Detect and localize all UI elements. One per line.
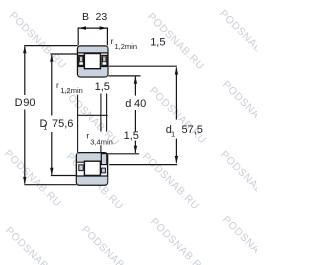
- lower left flange notch: [79, 165, 83, 171]
- watermark row4: [3, 214, 282, 265]
- watermark row1: [7, 8, 279, 73]
- svg-text:D: D: [15, 97, 23, 109]
- B arrow left: [78, 26, 86, 30]
- D1 arrow up: [50, 54, 53, 62]
- D arrow up: [23, 46, 26, 54]
- D1 top extension line: [50, 53, 77, 55]
- d1 arrow up: [175, 67, 178, 75]
- svg-text:1: 1: [43, 123, 47, 132]
- lower outer ring band: [77, 176, 108, 185]
- lower inner ring band: [77, 153, 101, 162]
- lower roller: [84, 161, 100, 175]
- D arrow down: [23, 177, 26, 185]
- watermark row3: [2, 148, 280, 213]
- svg-text:r: r: [86, 131, 89, 141]
- upper bearing section outline: [78, 46, 108, 77]
- B dimension line: [78, 27, 107, 29]
- svg-text:1,5: 1,5: [150, 37, 165, 49]
- svg-text:1,5: 1,5: [124, 130, 139, 142]
- svg-text:3,4min: 3,4min: [90, 137, 113, 146]
- lower right small notch: [101, 168, 105, 173]
- svg-text:B: B: [82, 11, 89, 23]
- svg-text:r: r: [56, 80, 59, 90]
- d1 dimension line: [175, 68, 177, 163]
- d arrow down: [134, 146, 137, 154]
- svg-text:90: 90: [23, 97, 35, 109]
- leader line r1,2 left vertical: [77, 95, 79, 153]
- svg-text:r: r: [111, 36, 114, 46]
- chamfer extension line left (x101): [100, 94, 102, 153]
- d1 top extension line: [109, 65, 177, 67]
- watermark row2: [60, 79, 282, 149]
- leader horizontal mid: [78, 114, 108, 116]
- svg-text:40: 40: [134, 98, 146, 110]
- D top extension line: [24, 45, 77, 47]
- d1 arrow down: [175, 156, 178, 164]
- lower right flange ring block: [101, 154, 107, 165]
- B arrow right: [100, 26, 108, 30]
- D1 bottom extension line: [51, 175, 77, 177]
- svg-text:75,6: 75,6: [52, 118, 73, 130]
- D1 arrow down: [50, 168, 53, 176]
- upper roller: [84, 54, 100, 69]
- lower bearing section outline: [76, 153, 107, 186]
- d dimension line: [134, 76, 136, 152]
- upper inner ring band: [78, 67, 107, 77]
- svg-text:d: d: [125, 98, 131, 110]
- d bottom extension line: [108, 153, 139, 155]
- D bottom extension line: [24, 184, 76, 186]
- d arrow up: [134, 76, 137, 84]
- D dimension line: [24, 46, 26, 183]
- svg-text:57,5: 57,5: [182, 124, 203, 136]
- upper right flange box: [102, 55, 107, 65]
- upper left flange box: [79, 55, 84, 65]
- D1 dimension line: [51, 55, 53, 175]
- svg-text:1,2min: 1,2min: [115, 42, 138, 51]
- svg-text:1,5: 1,5: [95, 81, 110, 93]
- svg-text:1,2min: 1,2min: [60, 86, 83, 95]
- svg-text:23: 23: [96, 11, 108, 23]
- B dimension extension lines: [78, 27, 107, 45]
- chamfer extension line right (x106.6): [106, 94, 108, 132]
- d top extension line: [108, 75, 140, 77]
- d1 bottom extension line: [109, 164, 177, 166]
- upper outer ring band: [78, 47, 108, 53]
- svg-text:1: 1: [171, 129, 175, 138]
